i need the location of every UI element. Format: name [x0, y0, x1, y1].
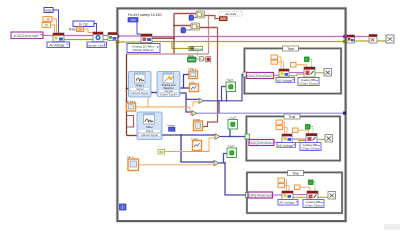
tunnel dots magenta — [116, 35, 119, 38]
svg-text:status: status — [194, 47, 203, 51]
wire: t3 output to LED2 and case2 selector — [220, 136, 247, 138]
svg-text:Filter: Filter — [146, 125, 153, 129]
case selector terminals — [243, 72, 248, 77]
loop condition terminal — [204, 57, 211, 62]
iteration terminal i — [120, 204, 127, 210]
wire: t2 output long run to right tunnel — [197, 112, 344, 114]
case1 true constant — [305, 57, 310, 62]
write-file VI B — [191, 23, 200, 30]
case3 orange constants — [278, 178, 285, 182]
wire: filter2 output network — [162, 134, 215, 136]
svg-text:NChan NSamp: NChan NSamp — [133, 48, 154, 52]
constant 1k sample — [73, 21, 97, 32]
refnum glyph B — [181, 28, 191, 34]
svg-text:f draw: f draw — [167, 124, 176, 128]
comparison triangle t3 — [215, 134, 220, 139]
while loop — [116, 7, 346, 222]
tunnel dots olive — [116, 40, 119, 43]
svg-text:AO Voltage: AO Voltage — [278, 143, 294, 147]
case2 Analog DBL dropdown — [300, 143, 321, 151]
write meas file icon 1 — [188, 67, 198, 79]
svg-text:Rate: Rate — [69, 28, 76, 32]
simple error handler icon — [386, 35, 394, 43]
svg-text:AO Voltage: AO Voltage — [277, 78, 293, 82]
boolean LED indicator Trig? — [226, 78, 236, 91]
svg-text:True: True — [292, 172, 299, 176]
dashed free label — [219, 12, 242, 17]
case structure 1 — [244, 48, 342, 95]
Or gate — [196, 57, 204, 62]
case structure 3 — [246, 172, 343, 214]
constant -10.00 — [43, 17, 57, 34]
case3 I/O constant — [248, 192, 273, 198]
case 2 selector label — [284, 114, 300, 119]
svg-text:1k: 1k — [78, 28, 82, 32]
case3 clear task icon — [328, 192, 336, 200]
refnum glyph A — [189, 15, 196, 21]
Scaling and Mapping express VI — [157, 72, 180, 97]
comparison triangle t2 — [192, 111, 197, 116]
physical channel I/O constant — [11, 32, 43, 39]
Filter1 express VI — [129, 72, 152, 98]
svg-text:-10: -10 — [45, 18, 50, 22]
DAQmx Timing (Sample Clock) VI — [93, 32, 103, 42]
wire: t4 output to LED3 and down to case3 selector — [219, 154, 227, 164]
svg-text:Fs=1k f sweep 10-150: Fs=1k f sweep 10-150 — [128, 13, 162, 17]
svg-text:1Chan 1Samp: 1Chan 1Samp — [301, 146, 320, 150]
svg-text:10: 10 — [44, 24, 48, 28]
DAQmx Clear Task VI — [369, 35, 377, 44]
svg-text:RSE: RSE — [45, 9, 52, 13]
svg-text:True: True — [289, 115, 296, 119]
write meas file icon 5 — [192, 137, 202, 151]
svg-text:Signals: Signals — [164, 89, 173, 93]
DAQmx Start Task VI — [108, 33, 118, 41]
case3 Analog DBL dropdown — [303, 200, 324, 208]
case1 clear task icon — [324, 69, 332, 77]
case1 DAQmx Write VI — [304, 67, 315, 77]
case3 AO Voltage dropdown — [278, 200, 298, 206]
case2 I/O constant — [249, 140, 274, 146]
svg-text:STOP: STOP — [188, 58, 196, 62]
wire: t1 output to LED and case1 selector — [204, 75, 244, 101]
svg-text:AO Voltage: AO Voltage — [279, 201, 295, 205]
scrollbar corner bottom-right — [384, 224, 400, 230]
svg-text:i: i — [122, 205, 123, 210]
case2 DAQmx Create Channel AO VI — [282, 134, 292, 143]
svg-text:Sample Clock: Sample Clock — [87, 43, 106, 47]
case1 orange constants — [271, 55, 278, 59]
case3 true constant — [309, 180, 314, 185]
case3 DAQmx Write VI — [307, 191, 318, 200]
svg-text:1Chan 1Samp: 1Chan 1Samp — [299, 81, 318, 85]
wire: error branch to unbundle — [172, 42, 189, 49]
Filter2 express VI — [137, 112, 162, 140]
wire: error cluster olive main run — [64, 39, 93, 41]
case 1 selector label — [283, 46, 299, 51]
case3 DAQmx Create Channel AO VI — [282, 191, 293, 200]
svg-text:Filtered Signal: Filtered Signal — [132, 91, 149, 95]
svg-text:Signal: Signal — [136, 87, 144, 91]
boolean LED indicator 3 — [227, 144, 237, 157]
Analog 1D Wfm dropdown — [127, 44, 160, 53]
write meas file icon 2 — [189, 80, 199, 91]
svg-text:cDAQ1Mod2/ao1: cDAQ1Mod2/ao1 — [249, 141, 274, 145]
write meas file icon 3 — [126, 99, 136, 111]
wire: DAQmx task magenta main run — [43, 35, 53, 37]
svg-text:Filtered Signal: Filtered Signal — [141, 133, 158, 137]
case2 AO Voltage dropdown — [277, 143, 296, 148]
svg-text:100: 100 — [130, 18, 135, 22]
case1 DAQmx Create Channel AO VI — [279, 69, 289, 77]
unbundle by name status — [189, 46, 203, 56]
case1 AO Voltage dropdown — [276, 78, 295, 83]
DAQmx Read VI — [141, 34, 152, 43]
case3 wires — [273, 194, 283, 196]
svg-text:cDAQ1Mod2/ao2: cDAQ1Mod2/ao2 — [248, 194, 273, 198]
write meas file icon 4 — [193, 117, 203, 130]
wire: waveform brown network — [152, 37, 174, 39]
write-file VI A — [196, 11, 205, 18]
case1 I/O constant — [247, 73, 274, 79]
svg-text:1Chan 1Samp: 1Chan 1Samp — [304, 203, 323, 207]
label and blue const near filter2 — [167, 124, 176, 132]
Rate label + constant — [69, 27, 93, 33]
svg-text:Signal: Signal — [146, 129, 154, 133]
wire: blue dynamic data — [151, 92, 157, 94]
case structure 2 — [246, 116, 341, 162]
constant 10.00 — [42, 23, 55, 34]
stop button terminal — [188, 54, 197, 62]
case2 true constant — [306, 125, 311, 130]
svg-text:cDAQ1Mod2/ao0: cDAQ1Mod2/ao0 — [247, 74, 272, 78]
case2 clear task icon — [325, 135, 333, 143]
DAQmx Stop Task VI — [347, 35, 355, 43]
write meas file icon 6 — [127, 155, 139, 170]
case2 DAQmx Write VI — [306, 134, 317, 143]
case1 wires — [274, 74, 280, 76]
case 3 selector label — [288, 171, 304, 176]
svg-text:cDAQ1Mod1/ai0: cDAQ1Mod1/ai0 — [14, 34, 39, 38]
Sample Clock dropdown label — [87, 42, 107, 48]
boolean LED indicator 2 — [228, 116, 238, 129]
svg-text:True: True — [287, 47, 294, 51]
case2 wires — [274, 141, 282, 143]
local variable red box — [220, 17, 228, 21]
comparison triangle t4 — [214, 160, 219, 165]
constant RSE (terminal config) — [44, 8, 59, 34]
DAQmx Create Virtual Channel VI — [53, 33, 64, 42]
svg-text:50: 50 — [160, 150, 164, 154]
wire: orange numeric runs — [136, 106, 191, 108]
svg-text:Scaled Signals: Scaled Signals — [160, 93, 178, 97]
case1 Analog DBL dropdown — [298, 78, 319, 86]
wait-ms blue constant — [128, 18, 141, 35]
small yellow constant — [158, 150, 165, 155]
svg-text:AI Voltage: AI Voltage — [49, 43, 64, 47]
svg-text:Filter1: Filter1 — [136, 84, 145, 88]
AI Voltage dropdown label — [47, 42, 70, 48]
case2 orange constants — [276, 120, 283, 124]
svg-text:1k 2ch: 1k 2ch — [79, 22, 89, 26]
comparison triangle t1 — [199, 98, 204, 103]
svg-text:raw data: raw data — [225, 12, 237, 16]
